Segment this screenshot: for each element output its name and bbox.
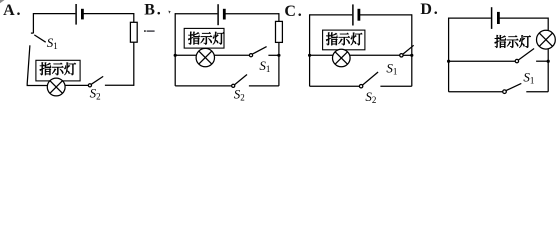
svg-text:1: 1	[53, 41, 58, 51]
svg-text:1: 1	[266, 64, 271, 74]
switch S2 blade (C)	[363, 72, 379, 85]
switch S1 blade (C)	[403, 45, 414, 54]
wire: D middle branch left	[449, 60, 515, 62]
wire: C lamp to S1	[350, 54, 400, 56]
battery D short thick plate	[497, 12, 500, 24]
svg-text:1: 1	[530, 75, 535, 85]
battery B long plate	[217, 4, 219, 25]
battery B short thick plate	[223, 9, 226, 20]
junction dot D middle-right	[547, 60, 550, 63]
comma artifact after B	[168, 11, 170, 14]
corner artifact top-left	[0, 0, 5, 3]
svg-text:C.: C.	[284, 3, 303, 20]
switch S1 contact tick	[31, 32, 34, 34]
battery A short thick plate	[81, 9, 84, 20]
switch S1 contact (C)	[400, 54, 403, 57]
dash artifact left of B	[144, 30, 146, 32]
wire: A S2 to right	[105, 84, 134, 86]
wire: A right upper vertical	[133, 13, 135, 22]
switch S2 contact (D)	[503, 90, 507, 94]
wire: C middle branch left	[310, 54, 334, 56]
wire: A lamp to S2	[65, 84, 88, 86]
wire: A left upper vertical	[32, 13, 34, 33]
wire: D top-left segment	[449, 17, 491, 19]
switch S2 contact (C)	[359, 85, 362, 88]
wire: A top-left segment	[33, 13, 75, 15]
label 指示灯 (C)	[326, 33, 362, 46]
switch S1 blade (B)	[252, 47, 266, 55]
label 指示灯 (B)	[188, 32, 224, 45]
callout box A	[36, 60, 80, 81]
wire: D top-right segment	[499, 17, 548, 19]
battery D long plate	[491, 7, 493, 29]
wire: B S2 to right	[249, 85, 279, 87]
wire: C top-right segment	[360, 14, 412, 16]
wire: A top-right segment	[83, 13, 134, 15]
wire: B top-right segment	[225, 13, 279, 15]
wire: B right upper vertical	[278, 13, 280, 21]
wire: A left lower vertical	[27, 45, 47, 85]
wire: B lamp to S1	[214, 54, 249, 56]
svg-text:2: 2	[372, 95, 377, 104]
label 指示灯 (A)	[40, 62, 76, 75]
switch S2 blade	[91, 76, 103, 84]
svg-text:D.: D.	[420, 1, 439, 18]
junction dot C middle-left	[308, 54, 311, 57]
switch S2 blade (D)	[506, 83, 521, 90]
svg-text:2: 2	[96, 92, 101, 102]
callout box C	[323, 30, 365, 50]
wire: C bottom-left	[310, 85, 360, 87]
wire: B middle branch left	[175, 54, 196, 56]
wire: C right vertical	[411, 14, 413, 86]
wire: B left vertical	[174, 13, 176, 86]
wire: C S1 to right	[403, 54, 412, 56]
svg-text:2: 2	[240, 93, 245, 103]
wire: B right lower vertical	[278, 42, 280, 86]
switch S1 contact (B)	[249, 54, 252, 57]
wire: B bottom-left	[175, 85, 231, 87]
lamp B	[196, 48, 214, 66]
switch S1 blade (D)	[518, 49, 534, 61]
junction dot D middle-left	[447, 60, 450, 63]
battery C long plate	[352, 4, 354, 25]
wire: D left vertical	[448, 18, 450, 92]
wire: D bottom-left	[449, 91, 503, 93]
wire: D right upper vertical	[547, 18, 549, 31]
wire: D right lower vertical	[547, 49, 549, 92]
callout box B	[184, 28, 224, 48]
svg-text:A.: A.	[3, 2, 22, 19]
switch S1 blade	[34, 35, 45, 42]
junction dot C middle-right	[410, 54, 413, 57]
junction dot B middle-right	[277, 54, 280, 57]
battery C short thick plate	[357, 9, 360, 21]
svg-text:1: 1	[393, 67, 398, 77]
wire: C top-left segment	[310, 14, 353, 16]
wire: C S2 to right	[380, 85, 411, 87]
lamp C	[333, 49, 351, 67]
switch S2 contact	[88, 84, 91, 87]
lamp D	[537, 30, 556, 49]
switch S2 contact (B)	[232, 84, 235, 87]
resistor R (A)	[130, 22, 137, 42]
wire: D S2 to right	[526, 91, 548, 93]
lamp A	[47, 78, 65, 96]
resistor R (B)	[276, 21, 283, 42]
junction dot B middle-left	[174, 54, 177, 57]
battery A long plate	[75, 4, 77, 25]
label 指示灯 (D)	[495, 35, 531, 48]
switch S1 contact (D)	[515, 59, 518, 62]
svg-text:B.: B.	[144, 1, 162, 18]
wire: C left vertical	[309, 14, 311, 86]
switch S2 blade (B)	[235, 75, 247, 85]
wire: B top-left segment	[175, 13, 217, 15]
wire: A right lower vertical	[133, 42, 135, 86]
wire: D S1 to right	[536, 60, 548, 62]
wire: B S1 to right	[268, 54, 279, 56]
